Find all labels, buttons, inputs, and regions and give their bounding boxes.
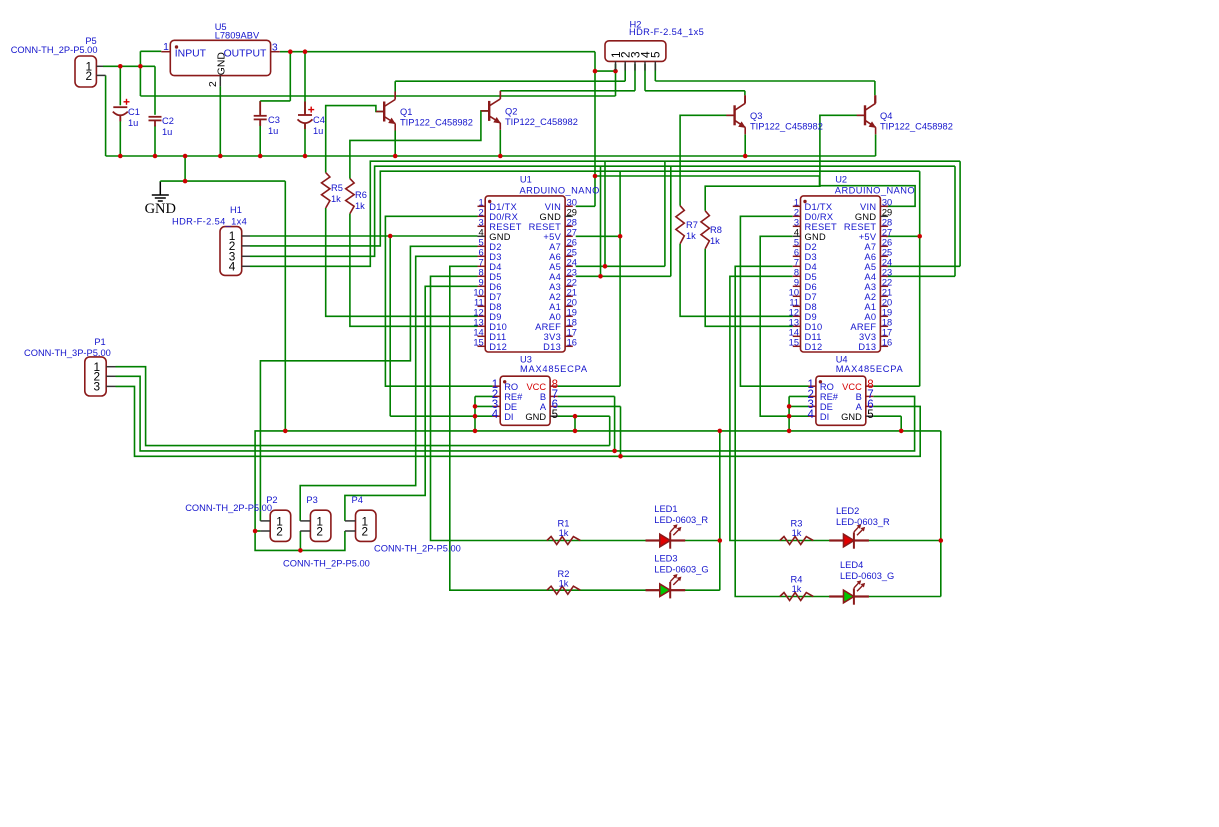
U3 pin stubs	[493, 386, 558, 416]
wire +5V U2 branch	[919, 171, 921, 386]
junction gnd branch	[183, 154, 188, 159]
wire C2 top	[154, 66, 156, 115]
wire R8 to U2 D10	[705, 249, 793, 326]
wire C1 bottom	[119, 118, 121, 157]
svg-text:LED-0603_R: LED-0603_R	[654, 515, 708, 525]
wire +9V to U2 VIN	[595, 176, 915, 206]
svg-text:RESET: RESET	[844, 222, 877, 232]
svg-text:A5: A5	[864, 262, 876, 272]
svg-text:R6: R6	[355, 190, 367, 200]
svg-text:18: 18	[882, 318, 892, 328]
svg-text:B: B	[540, 392, 546, 402]
svg-text:C4: C4	[313, 115, 325, 125]
svg-text:C2: C2	[162, 116, 174, 126]
junction U5.2 gnd	[218, 154, 223, 159]
svg-text:D3: D3	[489, 252, 501, 262]
transistor Q4	[857, 95, 877, 134]
svg-text:R2: R2	[558, 569, 570, 579]
svg-text:4: 4	[492, 409, 499, 421]
svg-text:2: 2	[85, 69, 92, 83]
junction led1 cathode	[718, 538, 723, 543]
svg-text:OUTPUT: OUTPUT	[224, 49, 267, 60]
svg-text:5: 5	[479, 238, 484, 248]
U4 pin stubs	[808, 386, 873, 416]
transistor Q1	[376, 92, 396, 131]
svg-text:21: 21	[567, 288, 577, 298]
wire H2 pin5 down	[654, 64, 656, 81]
wire U4 RE row	[789, 395, 808, 397]
svg-text:13: 13	[789, 318, 799, 328]
capacitor C1	[113, 107, 128, 121]
wire GND rail	[106, 155, 876, 157]
wire A5 drop U1	[604, 161, 606, 266]
svg-text:1u: 1u	[162, 127, 172, 137]
svg-text:D11: D11	[805, 332, 822, 342]
svg-text:P1: P1	[94, 337, 105, 347]
resistor R6	[346, 179, 354, 214]
svg-text:3: 3	[794, 218, 799, 228]
wire U1 D4 to LED3 row	[450, 266, 720, 590]
svg-text:27: 27	[882, 228, 892, 238]
svg-text:LED-0603_G: LED-0603_G	[840, 571, 894, 581]
wire U3 VCC	[558, 385, 621, 387]
svg-text:VIN: VIN	[860, 202, 876, 212]
svg-text:A5: A5	[549, 262, 561, 272]
svg-text:LED-0603_R: LED-0603_R	[836, 517, 890, 527]
wire GND long line	[255, 431, 941, 531]
svg-text:1u: 1u	[128, 118, 138, 128]
junction C4 out	[303, 49, 308, 54]
wire U2 D5 to LED2 row	[730, 276, 941, 540]
svg-text:DE: DE	[504, 402, 517, 412]
svg-text:GND: GND	[540, 212, 562, 222]
svg-text:1: 1	[163, 42, 169, 53]
resistor R5	[322, 173, 330, 208]
svg-text:A2: A2	[549, 292, 561, 302]
header H1	[220, 227, 242, 276]
junction C2 gnd	[153, 154, 158, 159]
P3 pin stubs	[300, 521, 310, 531]
wire +12V rail y96	[140, 95, 615, 97]
junction led2 cathode	[939, 538, 944, 543]
wire U4 enable chain	[788, 396, 790, 431]
svg-text:RO: RO	[504, 382, 518, 392]
svg-text:+5V: +5V	[543, 232, 561, 242]
svg-text:D13: D13	[858, 342, 876, 352]
junction gnd line branch	[283, 429, 288, 434]
wire P1.1 GND bus	[116, 367, 610, 446]
resistor R1	[547, 537, 581, 545]
svg-text:VCC: VCC	[526, 382, 546, 392]
svg-text:C1: C1	[128, 107, 140, 117]
svg-text:GND: GND	[217, 52, 228, 75]
wire U3 DE row	[475, 405, 493, 407]
wire P1.2 B bus	[116, 376, 915, 451]
svg-text:19: 19	[882, 308, 892, 318]
junction input	[138, 64, 143, 69]
svg-text:D10: D10	[805, 322, 823, 332]
junction C3 out	[288, 49, 293, 54]
wire LED13 gnd return	[719, 431, 721, 590]
svg-text:D4: D4	[489, 262, 501, 272]
svg-text:17: 17	[882, 328, 892, 338]
wire U4 GND5 row	[873, 415, 901, 417]
svg-text:3: 3	[272, 43, 278, 54]
U5 pin1 dot	[175, 45, 178, 48]
wire H2 pin3 down	[634, 64, 636, 91]
junction B line	[612, 449, 617, 454]
Q4 collector lead	[874, 95, 876, 103]
junction gnd sym	[183, 179, 188, 184]
svg-text:D3: D3	[805, 252, 817, 262]
resistor R2	[547, 586, 581, 594]
svg-text:1k: 1k	[559, 528, 569, 538]
wire H2 pin4 down	[644, 64, 646, 91]
svg-text:3: 3	[479, 218, 484, 228]
svg-text:24: 24	[567, 258, 577, 268]
U5 pin1 stub	[161, 51, 170, 53]
U5 pin2 stub	[219, 76, 221, 87]
svg-text:25: 25	[882, 248, 892, 258]
wire C3 bottom	[259, 122, 261, 157]
wire U1 VIN	[576, 205, 595, 207]
svg-text:29: 29	[882, 208, 892, 218]
svg-text:A1: A1	[864, 302, 876, 312]
wire P5.1 to C2	[103, 65, 155, 67]
wire U1 D5 to LED1 row	[431, 276, 720, 540]
svg-text:14: 14	[473, 328, 483, 338]
connector P1	[85, 357, 106, 396]
wire GND down to U3 DI	[389, 236, 391, 416]
svg-text:7: 7	[794, 258, 799, 268]
svg-text:15: 15	[473, 338, 483, 348]
svg-text:6: 6	[794, 248, 799, 258]
svg-text:R7: R7	[686, 220, 698, 230]
svg-text:6: 6	[479, 248, 484, 258]
wire A5 rise	[664, 161, 666, 266]
svg-text:1k: 1k	[331, 194, 341, 204]
svg-text:D8: D8	[805, 302, 817, 312]
wire U3 enable chain	[474, 396, 476, 431]
svg-text:D12: D12	[489, 342, 507, 352]
svg-text:AREF: AREF	[535, 322, 561, 332]
svg-text:HDR-F-2.54_1x4: HDR-F-2.54_1x4	[172, 217, 247, 227]
regulator U5	[170, 40, 270, 75]
svg-text:LED4: LED4	[840, 560, 863, 570]
connector P3	[310, 510, 331, 541]
wire R6 to U1 D10	[350, 214, 478, 327]
wire U3 GND5 to gnd line	[574, 416, 576, 431]
junction gnd line led13	[718, 429, 723, 434]
junction U3 GND5	[573, 414, 578, 419]
svg-text:VCC: VCC	[842, 382, 862, 392]
U1 pin stubs	[478, 206, 573, 346]
junction +9V split	[593, 174, 598, 179]
plus sign	[124, 99, 130, 105]
wire C4 bottom	[304, 123, 306, 157]
op-amp U3 MAX485 body	[500, 376, 550, 425]
wire +9V down	[594, 71, 596, 176]
svg-text:D9: D9	[805, 312, 817, 322]
svg-text:U4: U4	[836, 355, 848, 365]
LED LED2	[829, 524, 869, 548]
junction C1/P5.1	[118, 64, 123, 69]
wire U1 A5 row	[576, 265, 665, 267]
svg-text:A6: A6	[864, 252, 876, 262]
svg-text:2: 2	[316, 524, 323, 538]
wire H2.2 to Q1 collector	[395, 80, 625, 82]
svg-text:D10: D10	[489, 322, 507, 332]
U5 pin3 stub	[271, 51, 280, 53]
svg-text:DI: DI	[504, 412, 513, 422]
svg-text:1: 1	[479, 198, 484, 208]
svg-text:13: 13	[473, 318, 483, 328]
P1 pin stubs	[106, 367, 115, 387]
wire H2 pin1 down	[615, 64, 617, 96]
junction U1 +5V	[618, 234, 623, 239]
svg-text:9: 9	[794, 278, 799, 288]
svg-text:R8: R8	[710, 225, 722, 235]
svg-text:23: 23	[567, 268, 577, 278]
junction C4 gnd	[303, 154, 308, 159]
svg-text:14: 14	[789, 328, 799, 338]
svg-text:1u: 1u	[268, 126, 278, 136]
svg-text:CONN-TH_2P-P5.00: CONN-TH_2P-P5.00	[283, 559, 370, 569]
svg-text:Q4: Q4	[880, 111, 892, 121]
Q2 collector lead	[499, 91, 501, 99]
svg-text:D5: D5	[489, 272, 501, 282]
svg-text:MAX485ECPA: MAX485ECPA	[836, 364, 904, 374]
wire P3.2 down	[299, 531, 301, 550]
svg-text:18: 18	[567, 318, 577, 328]
P5 pin stubs	[96, 66, 105, 75]
svg-text:P4: P4	[352, 495, 363, 505]
svg-text:A3: A3	[864, 282, 876, 292]
wire GND branch h	[160, 180, 285, 182]
svg-text:21: 21	[882, 288, 892, 298]
svg-text:DE: DE	[820, 402, 833, 412]
wire H2.5 to Q4 collector	[655, 80, 875, 82]
wire C3 lead	[259, 101, 261, 114]
wire A5 drop U2	[959, 161, 961, 266]
svg-text:RESET: RESET	[805, 222, 838, 232]
svg-text:1k: 1k	[710, 236, 720, 246]
wire to U5 INPUT	[140, 50, 161, 52]
wire U3 DI row	[390, 415, 493, 417]
op-amp U4 MAX485 body	[816, 376, 866, 425]
wire C3 jog	[260, 100, 290, 102]
wire P2.2-P4.2 tie	[255, 531, 345, 550]
wire U3 GND5 row	[558, 415, 610, 417]
wire Q3 collector up	[744, 91, 746, 96]
wire A4 drop U1	[600, 166, 602, 276]
svg-text:1k: 1k	[792, 528, 802, 538]
junction Q3 emitter	[743, 154, 748, 159]
header H2	[605, 41, 666, 62]
wire H2 pin2 down	[624, 64, 626, 81]
wire OUTPUT down to H2	[594, 52, 596, 71]
svg-text:D6: D6	[489, 282, 501, 292]
junction C3 gnd	[258, 154, 263, 159]
wire input vertical	[139, 51, 141, 96]
wire U3 GND5 down	[609, 416, 611, 445]
wire H1.1 GND row	[250, 235, 478, 237]
svg-text:CONN-TH_2P-P5.00: CONN-TH_2P-P5.00	[374, 544, 461, 554]
wire U1 +5V pin	[576, 235, 620, 237]
svg-text:Q3: Q3	[750, 111, 762, 121]
connector P5	[75, 56, 96, 87]
svg-text:GND: GND	[805, 232, 827, 242]
svg-text:25: 25	[567, 248, 577, 258]
svg-text:4: 4	[229, 260, 236, 274]
svg-text:1k: 1k	[355, 201, 365, 211]
svg-text:D7: D7	[489, 292, 501, 302]
svg-text:H1: H1	[230, 205, 242, 215]
svg-text:1k: 1k	[686, 231, 696, 241]
svg-text:D8: D8	[489, 302, 501, 312]
svg-text:GND: GND	[525, 412, 546, 422]
LED LED1	[646, 524, 686, 548]
svg-text:A2: A2	[864, 292, 876, 302]
svg-text:D5: D5	[805, 272, 817, 282]
Q3 collector lead	[744, 95, 746, 103]
svg-text:+5V: +5V	[859, 232, 877, 242]
svg-text:5: 5	[794, 238, 799, 248]
transistor Q3	[726, 95, 746, 134]
junction H2 pin1	[613, 69, 618, 74]
svg-text:AREF: AREF	[850, 322, 876, 332]
svg-text:9: 9	[479, 278, 484, 288]
svg-text:1k: 1k	[792, 584, 802, 594]
svg-text:23: 23	[882, 268, 892, 278]
svg-text:8: 8	[794, 268, 799, 278]
U2 pin stubs	[793, 206, 888, 346]
svg-text:2: 2	[479, 208, 484, 218]
resistor R3	[780, 537, 814, 545]
svg-text:19: 19	[567, 308, 577, 318]
svg-text:A4: A4	[864, 272, 876, 282]
svg-text:1: 1	[794, 198, 799, 208]
svg-text:CONN-TH_3P-P5.00: CONN-TH_3P-P5.00	[24, 348, 111, 358]
capacitor C4	[298, 102, 313, 130]
wire A4 rise	[670, 166, 672, 276]
svg-text:4: 4	[807, 409, 814, 421]
wire U2 +5V pin	[886, 235, 920, 237]
wire U4 GND5 drop	[900, 416, 902, 431]
transistor Q2	[481, 91, 501, 130]
wire U2 RX to U4 RO	[740, 216, 808, 386]
svg-text:A0: A0	[864, 312, 876, 322]
svg-text:7: 7	[479, 258, 484, 268]
svg-text:3V3: 3V3	[544, 332, 561, 342]
svg-text:D0/RX: D0/RX	[805, 212, 834, 222]
wire GND branch v	[184, 156, 186, 181]
svg-text:A0: A0	[549, 312, 561, 322]
junction P3.2	[298, 548, 303, 553]
svg-text:A6: A6	[549, 252, 561, 262]
wire R6 to Q2 base	[350, 111, 489, 179]
junction U4 GND5	[899, 429, 904, 434]
wire Q1 emitter	[394, 131, 396, 157]
svg-text:TIP122_C458982: TIP122_C458982	[400, 118, 473, 128]
svg-text:B: B	[856, 392, 862, 402]
capacitor C2	[149, 117, 162, 127]
svg-text:3: 3	[93, 380, 100, 394]
wire U2 GND to U4 DI	[760, 236, 808, 416]
svg-text:27: 27	[567, 228, 577, 238]
junction gnd line U3	[573, 429, 578, 434]
wire Q4 collector up	[874, 81, 876, 95]
wire U2 A4 row	[886, 275, 955, 277]
svg-text:D12: D12	[805, 342, 823, 352]
svg-text:D1/TX: D1/TX	[489, 202, 517, 212]
wire U3 B drop	[614, 396, 616, 451]
wire U5 OUTPUT	[280, 51, 595, 53]
wire U1 D3 to P3.1	[300, 256, 477, 521]
junction U3 DE	[473, 404, 478, 409]
svg-text:R4: R4	[791, 575, 803, 585]
wire H1.4 A5 bus	[250, 161, 960, 266]
wire U2 D4 to LED4 row	[735, 266, 941, 596]
wire Q2 collector up	[499, 90, 501, 92]
op-amp U2 ARDUINO_NANO body	[801, 196, 881, 352]
svg-text:CONN-TH_2P-P5.00: CONN-TH_2P-P5.00	[185, 503, 272, 513]
svg-text:3V3: 3V3	[859, 332, 876, 342]
junction U4 en gnd	[787, 429, 792, 434]
svg-text:4: 4	[794, 228, 799, 238]
svg-text:30: 30	[567, 198, 577, 208]
wire R7 to Q3 base	[680, 115, 735, 205]
svg-text:ARDUINO_NANO: ARDUINO_NANO	[520, 185, 600, 195]
resistor R4	[780, 593, 814, 601]
svg-text:GND: GND	[841, 412, 862, 422]
svg-text:D13: D13	[543, 342, 561, 352]
svg-text:VIN: VIN	[545, 202, 561, 212]
svg-text:A1: A1	[549, 302, 561, 312]
wire R5 to Q1 base	[326, 106, 385, 173]
junction U1 A4	[598, 274, 603, 279]
svg-text:20: 20	[882, 298, 892, 308]
svg-text:TIP122_C458982: TIP122_C458982	[880, 122, 953, 132]
svg-text:2: 2	[362, 524, 369, 538]
wire Q3 emitter	[744, 134, 746, 156]
svg-text:1u: 1u	[313, 126, 323, 136]
svg-text:D9: D9	[489, 312, 501, 322]
svg-text:17: 17	[567, 328, 577, 338]
svg-text:26: 26	[882, 238, 892, 248]
junction H2 out	[593, 69, 598, 74]
svg-text:R1: R1	[558, 519, 570, 529]
LED LED4	[829, 580, 869, 604]
svg-text:Q2: Q2	[505, 107, 517, 117]
wire A4 drop U2	[954, 166, 956, 276]
svg-text:INPUT: INPUT	[175, 49, 207, 60]
svg-text:30: 30	[882, 198, 892, 208]
svg-text:D2: D2	[489, 242, 501, 252]
P4 pin stubs	[345, 521, 356, 531]
junction U3 en gnd	[473, 429, 478, 434]
wire U2 A5 row	[886, 265, 960, 267]
svg-text:16: 16	[567, 338, 577, 348]
junction C1 gnd	[118, 154, 123, 159]
wire U3 A row	[558, 405, 621, 407]
svg-text:RE#: RE#	[820, 392, 839, 402]
svg-text:16: 16	[882, 338, 892, 348]
wire H2.3 to Q2 collector	[500, 90, 635, 92]
svg-text:11: 11	[474, 298, 484, 308]
svg-text:5: 5	[649, 51, 663, 58]
wire to H2 pin1	[595, 70, 616, 72]
